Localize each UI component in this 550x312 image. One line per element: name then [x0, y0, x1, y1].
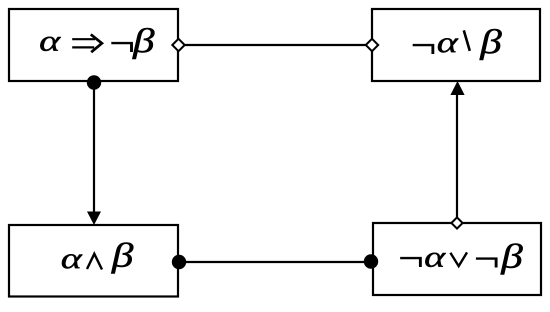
box alpha implies not-beta	[9, 9, 178, 81]
svg-text:α: α	[424, 240, 447, 274]
diamond on left edge of top-right box	[366, 39, 378, 51]
junction dot left edge of bottom-right box	[364, 254, 378, 268]
svg-text:α: α	[437, 25, 460, 59]
svg-text:α: α	[39, 24, 62, 58]
svg-text:¬: ¬	[396, 237, 427, 278]
wire right: bottom-right box up to top-right box	[456, 94, 458, 221]
wire bottom: bottom-left box to bottom-right box	[179, 261, 371, 263]
box not-alpha or not-beta	[373, 223, 541, 295]
svg-text:β: β	[500, 238, 523, 276]
svg-text:β: β	[132, 22, 155, 60]
diamond on top edge of bottom-right box	[451, 217, 462, 228]
svg-text:β: β	[111, 237, 134, 275]
diamond on right edge of top-left box	[172, 39, 184, 51]
svg-text:α: α	[61, 241, 84, 275]
symbol logical-and	[87, 254, 102, 270]
box not-alpha setminus beta	[372, 9, 540, 81]
svg-text:β: β	[479, 23, 502, 61]
junction dot bottom of top-left box	[87, 75, 101, 89]
wire left: top-left box down to bottom-left box	[93, 82, 95, 214]
junction dot right edge of bottom-left box	[172, 255, 186, 269]
svg-text:¬: ¬	[471, 238, 502, 279]
symbol logical-or	[450, 252, 467, 266]
wire top: implication box to right box	[180, 44, 370, 46]
symbol double-arrow implies	[72, 34, 102, 52]
arrowhead up into top-right box	[450, 81, 464, 95]
symbol setminus	[464, 30, 470, 51]
svg-text:¬: ¬	[408, 24, 439, 65]
arrowhead down into bottom-left box	[87, 212, 101, 226]
box alpha and beta	[9, 225, 178, 297]
